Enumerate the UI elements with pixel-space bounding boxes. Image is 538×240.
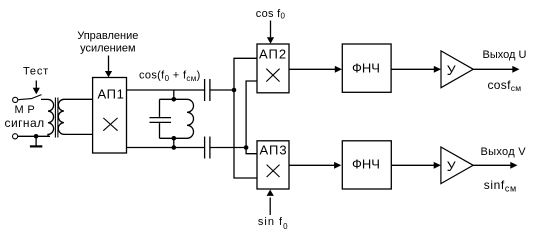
tank inductor L1 bbox=[187, 99, 194, 138]
wire ФНЧ1 to У1 bbox=[391, 66, 441, 73]
block ФНЧ2 bbox=[342, 141, 391, 189]
svg-text:усилением: усилением bbox=[80, 42, 135, 54]
svg-text:АП2: АП2 bbox=[259, 47, 287, 62]
bus line B bottom wire to АП2 lower input and АП3 upper input bbox=[246, 81, 257, 154]
coupling capacitor C3 bottom bbox=[205, 137, 210, 159]
svg-text:ФНЧ: ФНЧ bbox=[352, 60, 380, 75]
label Управление усилением bbox=[77, 30, 138, 54]
wire C3 to node B bbox=[210, 147, 246, 149]
arrow test pointer bbox=[33, 81, 40, 95]
tank link top bbox=[173, 90, 175, 99]
svg-text:сигнал: сигнал bbox=[5, 116, 45, 130]
wire АП2 to ФНЧ1 bbox=[289, 66, 342, 73]
svg-text:Выход U: Выход U bbox=[483, 49, 527, 61]
junction dot tank bottom link bbox=[172, 145, 177, 150]
ground bbox=[30, 136, 42, 146]
wire АП3 to ФНЧ2 bbox=[289, 162, 341, 169]
svg-text:АП3: АП3 bbox=[260, 143, 288, 158]
svg-text:У: У bbox=[447, 62, 456, 78]
output arrow V bbox=[473, 162, 517, 169]
junction dot tank top link bbox=[172, 97, 177, 102]
multiplier АП2 bbox=[257, 44, 289, 93]
svg-text:Выход V: Выход V bbox=[481, 146, 527, 158]
svg-text:Тест: Тест bbox=[23, 66, 49, 78]
block ФНЧ1 bbox=[342, 44, 391, 92]
multiplier АП3 bbox=[257, 141, 289, 189]
label М Р сигнал bbox=[5, 104, 45, 130]
arrow gain control into АП1 bbox=[105, 56, 112, 78]
wire ФНЧ2 to У2 bbox=[391, 162, 441, 169]
coupling capacitor C2 top bbox=[205, 79, 210, 101]
bus line A top wire to АП2 upper input and АП3 lower input bbox=[234, 58, 257, 178]
wire АП1 top output bbox=[127, 89, 205, 91]
tank capacitor C1 bbox=[150, 99, 172, 138]
tank link bottom bbox=[173, 138, 175, 147]
arrow sin f0 into АП3 bbox=[267, 190, 274, 216]
junction dot ground node bbox=[34, 134, 39, 139]
tank top rail bbox=[160, 98, 188, 100]
amplifier У2 bbox=[441, 147, 473, 184]
junction dot node B bbox=[244, 145, 249, 150]
amplifier У1 bbox=[441, 51, 473, 88]
svg-text:АП1: АП1 bbox=[98, 87, 125, 102]
arrow cos f0 into АП2 bbox=[267, 21, 274, 44]
test switch S1 bbox=[13, 95, 42, 103]
junction dot node A bbox=[232, 88, 237, 93]
tank bottom rail bbox=[160, 137, 188, 139]
wire input bottom bbox=[13, 134, 51, 139]
junction dot tank bottom rail bbox=[172, 136, 177, 141]
output arrow U bbox=[473, 66, 519, 73]
svg-text:ФНЧ: ФНЧ bbox=[352, 156, 380, 171]
wire АП1 bottom output bbox=[127, 147, 205, 149]
svg-text:У: У bbox=[447, 158, 456, 174]
svg-text:М Р: М Р bbox=[15, 104, 35, 116]
transformer T1 secondary winding bbox=[58, 99, 92, 134]
transformer T1 core bbox=[55, 98, 58, 138]
multiplier АП1 bbox=[93, 78, 127, 154]
wire C2 to node A bbox=[210, 89, 234, 91]
transformer T1 primary winding bbox=[41, 99, 54, 136]
svg-text:Управление: Управление bbox=[77, 30, 138, 42]
